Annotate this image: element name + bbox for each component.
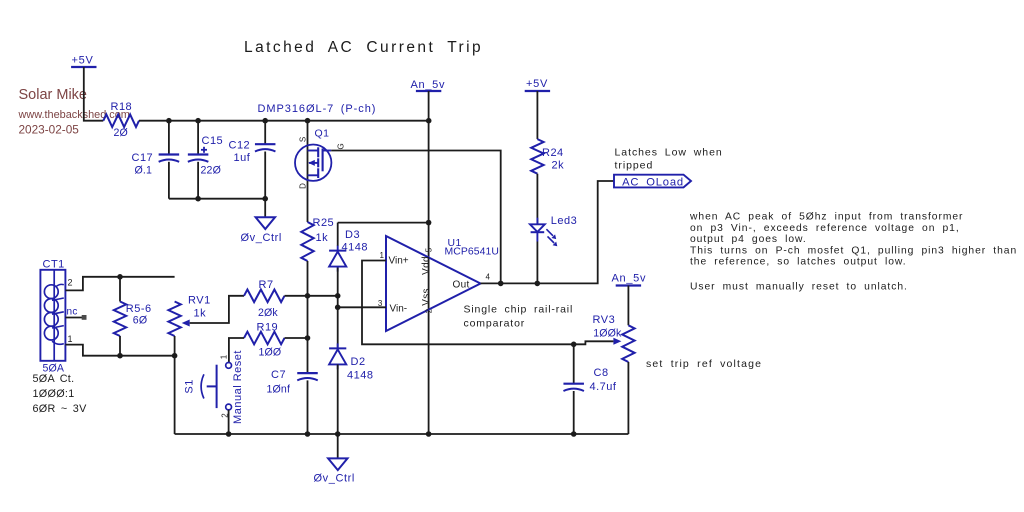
wire Led3 to out net (536, 242, 538, 284)
wire Out net (481, 181, 615, 283)
svg-text:1Ønf: 1Ønf (267, 384, 291, 396)
wire capacitor bottom rail (169, 198, 265, 200)
CT1 nc stub (65, 317, 82, 319)
svg-text:2k: 2k (552, 160, 565, 172)
resistor R25 (301, 222, 313, 261)
svg-text:22Ø: 22Ø (201, 165, 221, 177)
wire R24 to Led3 (536, 174, 538, 225)
ground 0v_Ctrl (bottom) (337, 434, 339, 458)
wire D3 cathode to An_5v rail (338, 222, 429, 224)
svg-text:2Øk: 2Øk (258, 307, 278, 319)
wire An_5v down to opamp Vdd (428, 91, 430, 121)
svg-text:set trip ref voltage: set trip ref voltage (646, 358, 762, 370)
svg-text:4148: 4148 (347, 370, 373, 382)
svg-text:R19: R19 (257, 322, 279, 334)
capacitor C7 (297, 372, 318, 374)
wire Vin- node down to C7 (307, 296, 309, 373)
svg-text:C15: C15 (202, 135, 224, 147)
wire RV1 wiper to R7 (190, 296, 244, 323)
svg-text:Led3: Led3 (551, 215, 577, 227)
svg-text:2Ø: 2Ø (114, 127, 128, 139)
svg-text:the reference, so latches outp: the reference, so latches output low. (690, 257, 907, 268)
svg-text:+5V: +5V (526, 78, 548, 90)
LED Led3 (530, 224, 545, 232)
svg-text:Vdd: Vdd (421, 256, 432, 275)
svg-text:when AC peak of 5Øhz input fro: when AC peak of 5Øhz input from transfor… (689, 212, 963, 223)
svg-text:2: 2 (425, 308, 434, 313)
svg-text:D2: D2 (351, 356, 366, 368)
svg-text:This turns on P-ch mosfet Q1,: This turns on P-ch mosfet Q1, pulling pi… (690, 245, 1017, 256)
svg-text:6ØR ~ 3V: 6ØR ~ 3V (33, 403, 88, 415)
svg-text:5ØA Ct.: 5ØA Ct. (33, 373, 75, 385)
svg-text:Ø.1: Ø.1 (135, 165, 153, 177)
svg-text:4: 4 (486, 273, 491, 282)
svg-text:1: 1 (380, 251, 385, 260)
capacitor C15 (polarized) (197, 121, 199, 155)
resistor R19 (244, 332, 285, 345)
svg-text:Latches Low when: Latches Low when (615, 147, 723, 159)
svg-text:Manual Reset: Manual Reset (232, 350, 244, 424)
svg-text:CT1: CT1 (43, 259, 65, 271)
svg-text:1k: 1k (194, 308, 207, 320)
potentiometer RV3 (622, 325, 634, 362)
wire +5V to R24 (536, 91, 538, 139)
svg-text:2023-02-05: 2023-02-05 (19, 123, 80, 137)
svg-text:1: 1 (220, 354, 229, 359)
wire R7 to Vin- node (285, 295, 338, 297)
svg-text:1uf: 1uf (234, 152, 251, 164)
svg-text:DMP316ØL-7 (P-ch): DMP316ØL-7 (P-ch) (258, 103, 377, 115)
net flag AC_OLoad (614, 175, 691, 188)
svg-text:R24: R24 (542, 147, 564, 159)
svg-text:4148: 4148 (342, 242, 368, 254)
CT1 pin 2 wire (65, 277, 174, 291)
junction dots top rail (166, 118, 172, 124)
junction dots cap bottom rail (195, 196, 201, 202)
svg-text:G: G (337, 143, 346, 149)
wire S1 to bottom rail (228, 410, 230, 434)
svg-text:D3: D3 (345, 229, 360, 241)
wire RV3 wiper jog (574, 341, 614, 344)
svg-text:An_5v: An_5v (411, 79, 446, 91)
wire Q1 gate to out node (331, 151, 501, 284)
svg-text:An_5v: An_5v (612, 273, 647, 285)
capacitor C8 (573, 344, 575, 383)
svg-text:C17: C17 (132, 152, 154, 164)
svg-text:Solar Mike: Solar Mike (19, 87, 88, 103)
svg-text:R7: R7 (259, 279, 274, 291)
wire R25 to Vin- node (307, 261, 309, 296)
svg-text:4.7uf: 4.7uf (590, 381, 617, 393)
svg-text:Øv_Ctrl: Øv_Ctrl (241, 232, 282, 244)
diode D2 (329, 347, 346, 349)
resistor R5-6 (119, 277, 121, 302)
svg-text:2: 2 (68, 278, 73, 288)
svg-text:on p3 Vin-, exceeds reference: on p3 Vin-, exceeds reference voltage on… (690, 223, 960, 234)
switch S1 manual reset (226, 363, 232, 369)
resistor R24 (531, 139, 543, 174)
svg-text:Q1: Q1 (315, 127, 330, 139)
svg-text:AC_OLoad: AC_OLoad (622, 176, 684, 188)
svg-text:1ØØ: 1ØØ (259, 347, 282, 359)
svg-text:5: 5 (425, 247, 434, 252)
svg-text:1ØØØ:1: 1ØØØ:1 (33, 388, 75, 400)
svg-text:comparator: comparator (464, 318, 526, 330)
resistor R18 (103, 114, 139, 127)
svg-text:MCP6541U: MCP6541U (445, 247, 500, 258)
svg-text:R5-6: R5-6 (126, 303, 152, 315)
wire top rail (139, 120, 429, 122)
svg-text:D: D (299, 183, 308, 189)
svg-text:Vin-: Vin- (390, 304, 408, 315)
svg-text:R25: R25 (313, 217, 335, 229)
wire Vin+ net (362, 261, 574, 345)
svg-text:1ØØk: 1ØØk (593, 328, 622, 340)
wire R19 right (285, 337, 308, 339)
capacitor C17 (168, 121, 170, 155)
svg-text:1k: 1k (316, 232, 329, 244)
svg-text:output p4 goes low.: output p4 goes low. (690, 234, 807, 245)
svg-text:Vin+: Vin+ (389, 256, 409, 267)
svg-text:RV1: RV1 (188, 295, 211, 307)
svg-text:Out: Out (453, 280, 470, 291)
svg-text:S: S (299, 137, 308, 142)
wire An_5v to RV3 (627, 286, 629, 326)
op-amp U1 MCP6541U (386, 236, 481, 331)
svg-text:S1: S1 (184, 379, 196, 393)
power +5V (right) (525, 90, 550, 92)
svg-text:R18: R18 (111, 101, 133, 113)
svg-text:RV3: RV3 (593, 314, 616, 326)
svg-text:1: 1 (68, 334, 73, 344)
ground 0v_Ctrl (left) (264, 199, 266, 218)
svg-text:C12: C12 (229, 140, 251, 152)
wire R19 left to S1 (229, 338, 244, 363)
power +5V (top left) (71, 66, 96, 68)
svg-text:Øv_Ctrl: Øv_Ctrl (314, 473, 355, 485)
power An_5v (top) (416, 90, 441, 92)
svg-text:C7: C7 (271, 369, 286, 381)
svg-text:C8: C8 (594, 367, 609, 379)
svg-text:Latched AC Current Trip: Latched AC Current Trip (244, 39, 483, 56)
svg-text:tripped: tripped (615, 160, 654, 172)
capacitor C12 (264, 121, 266, 145)
wire Vin- pin (338, 306, 386, 308)
diode D3 (337, 223, 339, 246)
wire RV3 bottom (627, 362, 629, 434)
wire bottom rail (175, 433, 629, 435)
potentiometer RV1 (168, 302, 180, 337)
power An_5v (right) (616, 284, 641, 286)
svg-text:6Ø: 6Ø (133, 315, 147, 327)
svg-text:nc: nc (67, 307, 78, 318)
svg-text:Single chip rail-rail: Single chip rail-rail (464, 304, 574, 316)
svg-text:User must manually reset to un: User must manually reset to unlatch. (690, 282, 908, 293)
resistor R7 (244, 290, 285, 303)
svg-text:Vss: Vss (421, 288, 432, 306)
wire +5V to R18 (84, 67, 104, 121)
CT1 pin 1 wire (65, 345, 174, 356)
svg-text:+5V: +5V (72, 55, 94, 67)
